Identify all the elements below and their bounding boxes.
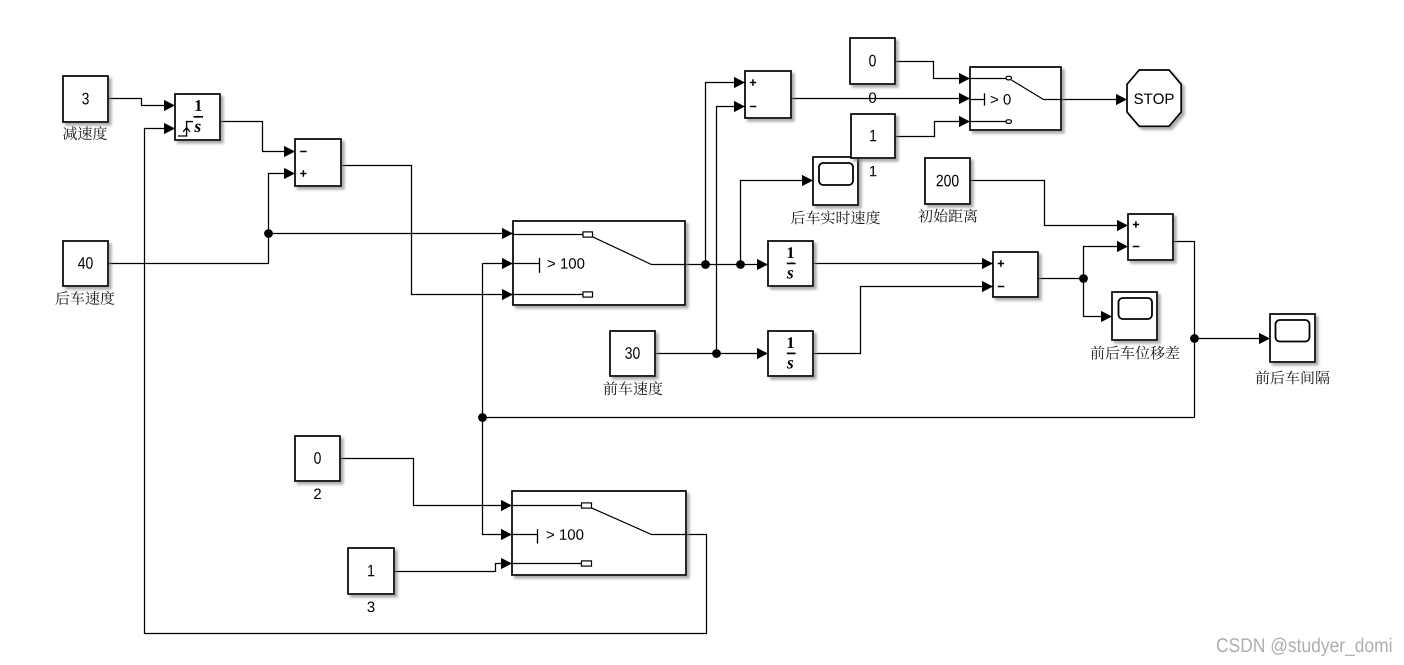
wire junction down to scope2: [1084, 279, 1113, 317]
constant block 0: [850, 38, 895, 84]
wire const1b to lower-switch in3: [395, 564, 513, 572]
wire integrator out to sum1 minus: [221, 122, 296, 152]
integrator block 1/s with reset port: [175, 94, 220, 140]
label 后车实时速度: [791, 210, 880, 224]
wire zero-switch out to stop: [1062, 99, 1128, 101]
wire branch node to sum1 plus: [269, 174, 296, 234]
wire branch up to sum2 plus: [706, 83, 746, 265]
wire control vertical run: [483, 264, 513, 535]
label 0: [869, 92, 876, 103]
constant block 减速度 value 3: [63, 76, 108, 122]
label 前车速度: [604, 381, 663, 395]
junction sum4 feedback: [1190, 334, 1199, 343]
wire branch const30 up to sum2 minus: [717, 107, 746, 354]
wire sum3 out to junction: [1039, 278, 1084, 280]
wire integrator1 out to sum3 plus: [814, 263, 994, 265]
wire const1 to zero-switch in3: [896, 122, 971, 137]
integrator block 1/s upper: [768, 241, 813, 286]
constant block 初始距离 value 200: [925, 158, 970, 204]
constant block 后车速度 value 40: [63, 241, 108, 286]
sum block S4 plus minus: [1128, 214, 1173, 260]
junction const30 branch: [712, 349, 721, 358]
label 前后车间隔: [1256, 371, 1330, 385]
scope block 后车实时速度: [813, 157, 858, 205]
label 2: [314, 489, 321, 499]
wire sum4 out down feedback: [1174, 242, 1195, 418]
wire const0b to lower-switch in1: [341, 459, 513, 506]
label 减速度: [63, 126, 107, 140]
wire sum1 out to upper-switch in3: [342, 166, 514, 295]
label 前后车位移差: [1091, 346, 1180, 360]
wire junction to scope3: [1195, 338, 1271, 340]
junction sum3 out: [1079, 274, 1088, 283]
junction control feedback: [478, 413, 487, 422]
watermark CSDN @studyer_domi: [1217, 638, 1391, 656]
wire control vertical into upper-switch in2: [483, 263, 514, 265]
junction const40 branch: [264, 229, 273, 238]
sum block S1 minus plus: [295, 139, 341, 186]
label 后车速度: [56, 291, 115, 305]
sum block S2 plus minus: [745, 71, 791, 118]
stop simulation block STOP octagon: [1127, 70, 1181, 126]
sum block S3 plus minus: [993, 252, 1038, 297]
scope block 前后车间隔: [1270, 314, 1315, 362]
integrator block 1/s lower: [768, 331, 813, 376]
constant block 前车速度 value 30: [610, 331, 655, 376]
junction switch out A: [701, 260, 710, 269]
constant block 2 value 0: [295, 436, 340, 481]
wire const3 to integrator in1: [109, 99, 176, 106]
wire integrator2 out to sum3 minus: [814, 287, 994, 354]
wire junction up to sum4 minus: [1084, 247, 1129, 279]
switch block threshold >0: [970, 67, 1061, 130]
switch block upper threshold >100: [513, 221, 685, 305]
constant block 1: [851, 114, 895, 158]
scope block 前后车位移差: [1112, 292, 1157, 340]
label 1: [870, 166, 876, 176]
junction switch out B: [736, 260, 745, 269]
wire const200 to sum4 plus: [971, 181, 1129, 226]
wire feedback loop lower-switch to integrator reset port: [145, 129, 707, 634]
wire feedback horizontal from sum4 branch: [483, 417, 1195, 419]
wire upper-switch out to integrator1: [686, 264, 769, 266]
wire const40 to upper-switch in1: [109, 234, 514, 264]
wire branch up to scope1: [741, 181, 814, 265]
label 初始距离: [918, 209, 977, 223]
wire const30 to integrator2: [656, 353, 769, 355]
label 3: [367, 602, 374, 613]
switch block lower threshold >100: [512, 491, 686, 575]
wire const0 to zero-switch in1: [896, 62, 971, 79]
constant block 3 value 1: [348, 548, 394, 594]
wire sum2 out to zero-switch in2: [792, 98, 971, 100]
